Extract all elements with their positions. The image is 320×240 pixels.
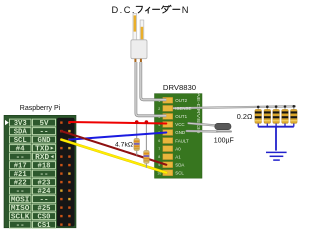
chip pin numbers and labels <box>157 98 191 175</box>
shunt resistor 3 <box>275 107 277 110</box>
GPIO row 6: #17 | #18 <box>10 162 32 169</box>
svg-text:--: -- <box>40 129 49 137</box>
pin 2 (right blade) <box>140 20 144 40</box>
resistor R2 top lead <box>145 122 147 150</box>
shunt resistor 1 <box>257 107 259 110</box>
stub right <box>140 59 142 62</box>
svg-text:FAULT: FAULT <box>175 138 189 143</box>
svg-text:SCLK: SCLK <box>11 214 30 222</box>
svg-text:AE-DRV8830: AE-DRV8830 <box>196 93 201 135</box>
wire: ISENSE to shunt bank (gray) <box>173 106 295 108</box>
svg-text:CS0: CS0 <box>38 214 52 222</box>
svg-text:A1: A1 <box>175 154 181 159</box>
Raspberry Pi GPIO label boxes <box>10 119 56 230</box>
GPIO row 10: MOSI | -- <box>10 196 32 203</box>
svg-text:TXD: TXD <box>35 146 50 154</box>
GPIO row 13: -- | CS1 <box>10 221 32 228</box>
wire: feeder right lead to OUT2 <box>141 62 167 100</box>
katakana small i <box>146 7 150 13</box>
svg-text:#18: #18 <box>38 163 52 171</box>
body <box>131 40 147 59</box>
wire: feeder left lead to OUT1 <box>136 62 166 116</box>
capacitor C1 100uF <box>215 123 232 132</box>
resistor R1 4.7k <box>134 138 140 155</box>
svg-text:OUT1: OUT1 <box>175 114 187 119</box>
wire: VCC to capacitor (gray) <box>188 123 216 125</box>
GPIO row 8: #22 | #23 <box>10 179 32 186</box>
svg-text:8: 8 <box>158 155 160 159</box>
katakana da <box>162 5 171 13</box>
GPIO row 7: #21 | -- <box>10 170 32 177</box>
wire: GND to GND (blue) <box>69 133 166 140</box>
svg-text:D.C.: D.C. <box>112 5 135 15</box>
svg-text:#22: #22 <box>14 180 27 188</box>
svg-text:A0: A0 <box>175 146 181 151</box>
resistor R2 4.7k <box>144 150 150 167</box>
svg-text:SDA: SDA <box>14 129 28 137</box>
resistor R1 top lead <box>136 122 138 139</box>
svg-text:SCL: SCL <box>14 137 28 145</box>
svg-text:VCC: VCC <box>175 122 184 127</box>
svg-text:Raspberry Pi: Raspberry Pi <box>20 105 61 112</box>
GPIO row 1: 3V3 | 5V <box>10 119 32 126</box>
katakana long bar 2 <box>173 8 180 10</box>
svg-text:DRV8830: DRV8830 <box>163 83 196 92</box>
wire: GND to capacitor (gray) <box>187 130 218 133</box>
svg-text:7: 7 <box>158 147 160 151</box>
GPIO row 3: SCL | GND <box>10 136 32 143</box>
shunt resistor 5 <box>293 106 295 109</box>
svg-text:MISO: MISO <box>11 205 30 213</box>
GPIO row 9: -- | #24 <box>10 187 32 194</box>
junction dot on red wire at R1 <box>135 120 139 124</box>
svg-text:SCL: SCL <box>175 170 184 175</box>
GPIO row 4: #4 | TXD <box>10 145 32 152</box>
connector J1 (DC feeder plug) <box>131 14 147 63</box>
svg-text:--: -- <box>16 188 25 196</box>
svg-text:#23: #23 <box>38 180 52 188</box>
module U1 DRV8830 board <box>155 94 203 179</box>
GPIO row 5: -- | RXD <box>10 153 32 160</box>
shunt resistor 4 <box>284 107 286 110</box>
katakana fu <box>136 6 142 12</box>
GPIO row 11: MISO | #25 <box>10 204 32 211</box>
stub left <box>134 59 136 62</box>
svg-text:3V3: 3V3 <box>14 120 28 128</box>
svg-text:2: 2 <box>158 107 160 111</box>
chip pads (pins 1-10) <box>163 97 173 175</box>
shunt resistor 2 <box>266 107 268 110</box>
svg-text:GND: GND <box>38 137 52 145</box>
svg-text:ISENSE: ISENSE <box>175 106 191 111</box>
svg-text:#24: #24 <box>38 188 52 196</box>
shunt resistor bank 0.2 ohm <box>255 105 297 127</box>
svg-text:--: -- <box>40 197 49 205</box>
Raspberry Pi board <box>4 115 76 228</box>
wire: 5V to VCC (red) <box>69 122 166 124</box>
svg-text:--: -- <box>40 171 49 179</box>
svg-text:--: -- <box>16 154 25 162</box>
ground symbol <box>266 152 287 160</box>
wire: SCL (yellow) <box>61 140 166 173</box>
svg-text:100µF: 100µF <box>214 138 234 145</box>
svg-text:4.7kΩ: 4.7kΩ <box>115 141 133 148</box>
svg-text:#21: #21 <box>14 171 28 179</box>
svg-text:#4: #4 <box>16 146 26 154</box>
svg-text:N: N <box>182 5 189 15</box>
svg-text:SDA: SDA <box>175 162 184 167</box>
svg-text:9: 9 <box>158 163 160 167</box>
pin 1 marker triangle <box>5 120 9 125</box>
svg-text:6: 6 <box>158 139 160 143</box>
GPIO row 12: SCLK | CS0 <box>10 213 32 220</box>
svg-text:RXD: RXD <box>35 154 50 162</box>
katakana long bar <box>153 8 160 10</box>
pin 1 (left blade) <box>133 14 137 41</box>
svg-text:GND: GND <box>175 130 185 135</box>
svg-text:OUT2: OUT2 <box>175 98 187 103</box>
svg-text:MOSI: MOSI <box>11 197 30 205</box>
svg-text:--: -- <box>16 222 25 229</box>
svg-text:5V: 5V <box>40 120 50 128</box>
GPIO row 2: SDA | -- <box>10 128 32 135</box>
label: D.C. feeder N <box>112 5 189 15</box>
svg-text:#25: #25 <box>38 205 52 213</box>
GPIO pin dots <box>60 121 70 225</box>
Pi header strip <box>57 118 75 227</box>
ground bus (blue) <box>258 127 294 151</box>
svg-text:0.2Ω: 0.2Ω <box>237 112 253 121</box>
junction dot on red wire at R2 <box>145 120 149 124</box>
wire: SDA (dark red) <box>61 131 166 165</box>
svg-text:#17: #17 <box>14 163 27 171</box>
svg-text:CS1: CS1 <box>38 222 52 229</box>
